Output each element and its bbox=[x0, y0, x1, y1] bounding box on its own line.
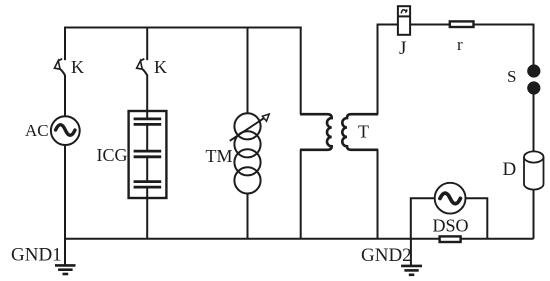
svg-text:ICG: ICG bbox=[97, 145, 128, 165]
wire transformer primary lower bbox=[300, 150, 302, 239]
wire transformer primary upper bbox=[300, 27, 302, 115]
wire right column middle bbox=[533, 94, 535, 152]
svg-text:DSO: DSO bbox=[433, 216, 469, 236]
wire AC branch middle bbox=[64, 75, 66, 117]
svg-text:TM: TM bbox=[206, 146, 233, 166]
wire ICG branch lower bbox=[146, 198, 148, 239]
svg-text:J: J bbox=[399, 38, 406, 59]
wire DSO left branch bbox=[411, 198, 435, 239]
oscilloscope DSO bbox=[435, 183, 466, 214]
ac source AC bbox=[51, 116, 80, 145]
switch K1 bbox=[54, 59, 65, 75]
wire AC branch upper bbox=[64, 27, 66, 61]
wire AC branch lower bbox=[64, 145, 66, 239]
spark gap S bbox=[527, 64, 540, 94]
wire transformer secondary upper bbox=[377, 25, 379, 115]
svg-text:T: T bbox=[358, 122, 369, 142]
svg-text:r: r bbox=[457, 35, 463, 54]
svg-text:K: K bbox=[71, 57, 84, 77]
divider D bbox=[524, 151, 544, 189]
svg-text:AC: AC bbox=[25, 121, 49, 140]
wire DSO right branch bbox=[465, 198, 487, 239]
switch K2 bbox=[137, 59, 148, 75]
wire ICG branch middle bbox=[146, 75, 148, 111]
svg-text:GND1: GND1 bbox=[11, 245, 62, 266]
ground GND2 bbox=[401, 239, 422, 275]
wire TM branch upper bbox=[247, 27, 249, 114]
wire transformer secondary lower bbox=[377, 150, 379, 239]
svg-text:K: K bbox=[154, 57, 167, 77]
transformer T primary winding bbox=[300, 114, 332, 150]
relay J bbox=[398, 6, 410, 35]
wire right column lower bbox=[533, 190, 535, 239]
wire top-left bus bbox=[64, 27, 301, 29]
svg-text:D: D bbox=[503, 159, 517, 180]
capacitor bank ICG bbox=[129, 111, 167, 198]
resistor DSO shunt bbox=[440, 236, 461, 242]
svg-text:GND2: GND2 bbox=[361, 245, 412, 266]
wire top-right bus bbox=[377, 24, 534, 26]
wire bottom bus bbox=[64, 238, 533, 240]
wire ICG branch upper bbox=[146, 27, 148, 61]
ground GND1 bbox=[55, 239, 76, 274]
resistor r bbox=[450, 21, 474, 27]
inductor TM bbox=[230, 113, 269, 193]
transformer T secondary winding bbox=[342, 114, 378, 150]
wire TM branch lower bbox=[247, 194, 249, 239]
wire right column upper bbox=[533, 24, 535, 65]
svg-text:S: S bbox=[507, 67, 516, 86]
